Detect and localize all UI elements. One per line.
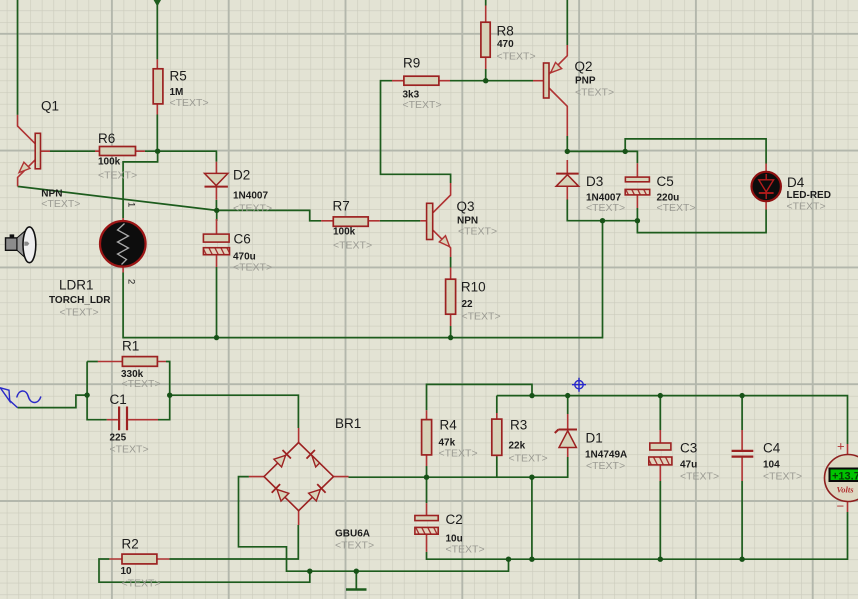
svg-text:C2: C2	[446, 512, 463, 527]
svg-text:<TEXT>: <TEXT>	[458, 226, 497, 238]
svg-text:225: 225	[110, 433, 127, 444]
svg-text:<TEXT>: <TEXT>	[575, 87, 614, 99]
zener diode D1	[555, 414, 627, 472]
svg-text:D1: D1	[586, 431, 603, 446]
wire AC source to node F	[18, 395, 88, 408]
wire node E up and over to D4 top	[625, 139, 766, 164]
wire Q1 emitter slant to node B	[18, 186, 217, 210]
ground	[355, 571, 357, 589]
junction C6 bottom rail	[214, 335, 219, 340]
junction R10 bottom rail	[448, 335, 453, 340]
wire R4 bottom pin to node H	[426, 466, 428, 477]
wire node I down to DC minus rail	[531, 477, 533, 559]
resistor R9	[392, 56, 450, 112]
svg-text:LDR1: LDR1	[59, 278, 94, 293]
svg-text:1N4007: 1N4007	[233, 191, 268, 202]
wire Q2 emitter to top edge	[566, 0, 568, 45]
svg-text:C4: C4	[763, 441, 781, 456]
svg-text:<TEXT>: <TEXT>	[680, 471, 719, 483]
LED D4	[752, 164, 831, 213]
wire node F vertical R1-C1 left	[87, 362, 107, 420]
wire R9 right to node C	[450, 80, 486, 82]
svg-text:<TEXT>: <TEXT>	[403, 99, 442, 111]
svg-text:<TEXT>: <TEXT>	[122, 578, 161, 590]
wire R6 right to node A and to D2	[145, 151, 217, 162]
wire D2 bottom to node B	[215, 200, 217, 211]
svg-text:<TEXT>: <TEXT>	[110, 444, 149, 456]
wire node E branch to C5 top	[625, 151, 637, 163]
svg-text:22: 22	[462, 299, 474, 310]
wire R5 top to top edge	[156, 0, 158, 59]
wire R10 bottom to emitter rail	[450, 326, 452, 338]
resistor R7	[321, 199, 380, 252]
resistor R8	[481, 6, 536, 70]
svg-text:<TEXT>: <TEXT>	[233, 262, 272, 274]
wire node G to BR1 plus corner	[170, 395, 299, 428]
node G R1-C1 right	[167, 393, 172, 398]
wire node D to node E	[567, 150, 625, 152]
svg-text:D2: D2	[233, 168, 250, 183]
svg-text:<TEXT>: <TEXT>	[509, 453, 548, 465]
svg-text:Volts: Volts	[837, 485, 855, 495]
svg-text:+13.7: +13.7	[832, 471, 858, 483]
resistor R4	[422, 410, 478, 466]
junction lower rail riser	[600, 218, 605, 223]
junction C5 bottom	[635, 218, 640, 223]
resistor R10	[446, 268, 501, 327]
wire BR1 left corner to ground net	[239, 477, 310, 572]
junction C3 bottom on minus rail	[658, 557, 663, 562]
wire Q1 base to R6	[50, 150, 95, 152]
svg-text:<TEXT>: <TEXT>	[335, 540, 374, 552]
generator AC source	[0, 388, 41, 408]
svg-text:22k: 22k	[509, 441, 526, 452]
capacitor C6	[203, 219, 272, 274]
wire D3 bottom to lower rail	[567, 200, 637, 221]
wire Q1 collector to top edge	[17, 0, 19, 115]
svg-text:<TEXT>: <TEXT>	[763, 471, 802, 483]
svg-text:<TEXT>: <TEXT>	[233, 203, 272, 215]
svg-text:D3: D3	[586, 174, 603, 189]
svg-text:LED-RED: LED-RED	[787, 190, 831, 201]
wire C5 rail jog to D4 bottom	[637, 210, 766, 233]
svg-text:C6: C6	[234, 232, 251, 247]
capacitor C1	[107, 392, 158, 456]
wire R7 right to Q3 base	[380, 220, 421, 222]
node marker crosshair	[572, 378, 586, 392]
svg-text:2: 2	[126, 279, 137, 284]
wire R3 top to plus rail corner	[496, 396, 498, 413]
wire node H to R3 bottom and node I and D1 bottom	[427, 457, 568, 477]
svg-text:D4: D4	[787, 175, 805, 190]
svg-text:R4: R4	[440, 418, 458, 433]
resistor R5	[153, 59, 208, 114]
resistor R3	[492, 413, 548, 465]
svg-text:<TEXT>: <TEXT>	[98, 170, 137, 182]
junction R4 jog on plus rail	[529, 393, 534, 398]
wire R9 left loop down to Q3 collector	[381, 81, 451, 183]
wire R2 right up to BR1 bottom corner	[170, 525, 299, 559]
svg-text:C3: C3	[680, 441, 697, 456]
wire BR1 right corner to node H	[349, 476, 427, 478]
node H BR1 plus output	[424, 475, 429, 480]
svg-text:<TEXT>: <TEXT>	[439, 448, 478, 460]
svg-text:C5: C5	[657, 174, 674, 189]
svg-text:R2: R2	[122, 537, 139, 552]
node J BR1 AC2-R2-ground	[307, 569, 312, 574]
speaker icon	[6, 227, 36, 263]
wire node F to R1 left	[87, 361, 98, 363]
svg-text:<TEXT>: <TEXT>	[787, 201, 826, 213]
svg-text:BR1: BR1	[335, 416, 361, 431]
wire R8 bottom to node C	[485, 69, 487, 81]
svg-text:<TEXT>: <TEXT>	[462, 311, 501, 323]
svg-text:100k: 100k	[333, 227, 356, 238]
svg-text:100k: 100k	[98, 157, 121, 168]
node B D2-C6-emitter	[214, 208, 219, 213]
svg-text:R10: R10	[461, 280, 486, 295]
wire C2 bottom corner to DC minus rail	[427, 512, 848, 559]
svg-text:<TEXT>: <TEXT>	[333, 240, 372, 252]
diode D2	[205, 162, 273, 215]
junction C4 top on plus rail	[739, 393, 744, 398]
svg-text:<TEXT>: <TEXT>	[60, 307, 99, 319]
svg-text:C1: C1	[110, 392, 127, 407]
wire ground net to DC minus rail	[310, 559, 509, 571]
svg-text:<TEXT>: <TEXT>	[657, 202, 696, 214]
wire C2 top to node H	[426, 477, 428, 503]
svg-text:R9: R9	[403, 56, 420, 71]
wire D1 top pin green	[567, 396, 569, 414]
wire R5 bottom to node A	[156, 115, 158, 152]
wire C3 bottom pin green	[659, 481, 661, 559]
capacitor C5	[625, 163, 695, 214]
wire R3 bottom pin	[496, 457, 498, 478]
svg-text:PNP: PNP	[575, 76, 596, 87]
wire R4 top jog to plus rail	[427, 384, 533, 410]
svg-text:R3: R3	[510, 418, 527, 433]
node top arrow tick on R5 wire	[154, 0, 161, 7]
wire LDR1 bottom down and emitter rail to x602 riser	[123, 221, 602, 338]
wire C6 top to node B	[216, 210, 218, 221]
svg-text:1: 1	[126, 202, 137, 207]
transistor Q2	[533, 45, 614, 136]
svg-text:47u: 47u	[680, 460, 697, 471]
wire node A jog down-left to LDR1 top	[123, 151, 158, 218]
node I minus riser top	[529, 475, 534, 480]
node E C5 branch	[623, 149, 628, 154]
wire Q2 collector to node D	[566, 136, 568, 151]
svg-text:−: −	[837, 499, 845, 514]
svg-text:1N4749A: 1N4749A	[585, 450, 627, 461]
wire R1 right to node G	[166, 362, 170, 396]
svg-text:R5: R5	[170, 69, 187, 84]
capacitor C2	[415, 503, 485, 555]
wire node C to Q2 base	[486, 80, 533, 82]
svg-text:<TEXT>: <TEXT>	[497, 51, 536, 63]
wire C1 right to node G	[158, 395, 170, 420]
transistor Q1	[18, 99, 81, 211]
wire R2 left down to ground net	[99, 559, 310, 582]
svg-text:10: 10	[121, 566, 133, 577]
wire C4 top pin green	[741, 396, 743, 430]
svg-text:R7: R7	[333, 199, 350, 214]
svg-text:TORCH_LDR: TORCH_LDR	[49, 295, 111, 306]
svg-text:GBU6A: GBU6A	[335, 529, 370, 540]
wire Q3 emitter to R10	[450, 257, 452, 268]
svg-text:R1: R1	[122, 339, 139, 354]
svg-text:104: 104	[763, 460, 780, 471]
bridge rectifier BR1	[249, 416, 374, 552]
voltmeter	[825, 439, 858, 514]
junction C4 bottom on minus rail	[739, 557, 744, 562]
node R5-R6-D2	[155, 149, 160, 154]
resistor R2	[109, 537, 169, 590]
svg-text:R6: R6	[98, 131, 115, 146]
wire DC plus rail	[497, 396, 848, 444]
wire C5 bottom to rail	[636, 208, 638, 221]
wire C4 bottom pin green	[741, 481, 743, 559]
junction ground stub	[354, 569, 359, 574]
resistor R6	[95, 131, 145, 182]
svg-text:<TEXT>: <TEXT>	[446, 544, 485, 556]
junction minus riser bottom	[529, 557, 534, 562]
svg-text:<TEXT>: <TEXT>	[122, 378, 161, 390]
wire C3 top pin green	[659, 396, 661, 430]
node F AC input	[84, 392, 89, 397]
svg-text:470: 470	[497, 39, 514, 50]
wire C6 bottom to bottom-left rail	[216, 267, 218, 338]
wire node B to R7	[217, 210, 322, 220]
wire R8 top to top edge	[485, 0, 487, 6]
node C R8-R9-Q2 base	[483, 78, 488, 83]
diode D3	[556, 160, 625, 214]
svg-text:Q1: Q1	[41, 99, 59, 114]
node D Q2 collector-D3	[565, 149, 570, 154]
svg-text:Q2: Q2	[575, 59, 593, 74]
transistor Q3	[420, 183, 497, 257]
resistor R1	[98, 339, 166, 391]
LDR LDR1	[49, 202, 146, 319]
svg-text:<TEXT>: <TEXT>	[586, 460, 625, 472]
svg-text:<TEXT>: <TEXT>	[586, 202, 625, 214]
junction C3 top on plus rail	[658, 393, 663, 398]
svg-text:+: +	[837, 439, 845, 454]
svg-text:Q3: Q3	[457, 199, 475, 214]
svg-text:<TEXT>: <TEXT>	[41, 198, 80, 210]
junction D1 top on plus rail	[565, 393, 570, 398]
capacitor C4	[732, 430, 803, 483]
svg-text:R8: R8	[497, 24, 514, 39]
svg-text:<TEXT>: <TEXT>	[170, 97, 209, 109]
capacitor C3	[649, 430, 719, 483]
junction ground riser on minus rail	[506, 557, 511, 562]
